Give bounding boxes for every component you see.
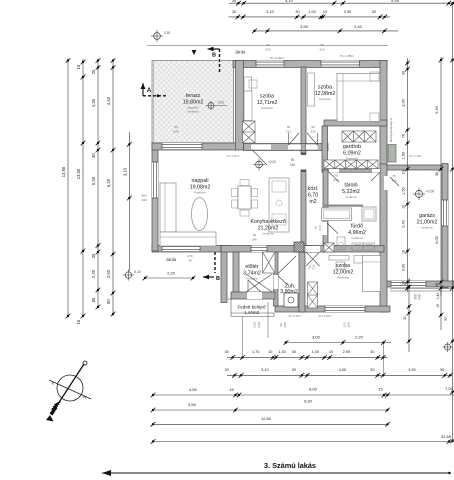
- svg-text:3,50: 3,50: [408, 368, 415, 372]
- svg-text:5,45: 5,45: [391, 0, 398, 3]
- svg-text:Mezőgazdasági út: Mezőgazdasági út: [389, 118, 393, 143]
- svg-text:szoba: szoba: [318, 85, 332, 91]
- svg-text:szoba: szoba: [260, 94, 274, 100]
- svg-text:Parketta: Parketta: [194, 190, 206, 194]
- svg-text:Konyha-étkező: Konyha-étkező: [250, 219, 285, 225]
- svg-text:Fedett belépő: Fedett belépő: [237, 305, 266, 310]
- svg-text:4,50: 4,50: [188, 402, 197, 407]
- svg-text:Pm 0.90m: Pm 0.90m: [289, 314, 302, 318]
- svg-text:210: 210: [311, 130, 316, 134]
- svg-text:0,02: 0,02: [218, 101, 224, 105]
- svg-text:30: 30: [295, 10, 299, 14]
- svg-text:6,70: 6,70: [308, 193, 318, 199]
- svg-text:A: A: [147, 88, 152, 94]
- svg-text:0,38: 0,38: [164, 31, 170, 35]
- svg-text:30: 30: [402, 281, 406, 285]
- svg-text:terasz: terasz: [186, 93, 201, 99]
- svg-text:Parketta: Parketta: [346, 156, 358, 160]
- svg-text:3,10: 3,10: [122, 167, 127, 176]
- svg-text:Járda: Járda: [166, 257, 177, 262]
- svg-text:közl.: közl.: [308, 186, 319, 192]
- svg-text:8,00: 8,00: [309, 387, 318, 392]
- svg-text:3,90m2: 3,90m2: [280, 289, 298, 295]
- svg-text:32,69: 32,69: [441, 434, 452, 439]
- svg-text:30: 30: [91, 253, 96, 258]
- svg-text:210: 210: [319, 48, 324, 52]
- svg-text:6,30: 6,30: [304, 399, 313, 404]
- svg-text:tároló: tároló: [344, 183, 357, 189]
- svg-text:szoba: szoba: [336, 263, 350, 269]
- svg-text:3,00: 3,00: [312, 335, 321, 340]
- svg-text:1,00: 1,00: [308, 10, 315, 14]
- svg-text:240: 240: [141, 198, 146, 202]
- svg-text:210: 210: [333, 178, 338, 182]
- svg-text:100: 100: [283, 322, 287, 327]
- svg-text:30: 30: [372, 10, 376, 14]
- svg-text:30: 30: [91, 153, 96, 158]
- svg-text:2,00: 2,00: [257, 322, 261, 328]
- svg-text:gardrob: gardrob: [343, 144, 361, 150]
- svg-text:210: 210: [391, 179, 396, 183]
- svg-text:0,10: 0,10: [134, 270, 141, 274]
- svg-text:10: 10: [402, 205, 406, 209]
- svg-text:30: 30: [440, 368, 444, 372]
- svg-text:4,10: 4,10: [285, 0, 292, 3]
- svg-text:30: 30: [232, 10, 236, 14]
- svg-text:5,30: 5,30: [91, 176, 96, 185]
- svg-text:1,00: 1,00: [312, 350, 319, 354]
- svg-text:előtér: előtér: [245, 264, 258, 270]
- svg-text:1,50: 1,50: [402, 187, 406, 194]
- svg-text:B: B: [216, 276, 220, 282]
- svg-text:30: 30: [444, 317, 448, 321]
- svg-text:Pm 1.40m: Pm 1.40m: [409, 154, 422, 158]
- svg-text:240: 240: [252, 238, 257, 242]
- svg-text:K: K: [52, 381, 55, 386]
- svg-text:garázs: garázs: [419, 213, 435, 219]
- svg-text:210: 210: [290, 163, 296, 167]
- svg-text:Pm 0.00m: Pm 0.00m: [227, 154, 240, 158]
- svg-text:90: 90: [291, 158, 295, 162]
- svg-text:+0,00: +0,00: [268, 160, 276, 164]
- svg-text:4,00: 4,00: [339, 368, 346, 372]
- svg-text:Pm 0.90m: Pm 0.90m: [319, 314, 332, 318]
- svg-text:5,40: 5,40: [435, 106, 439, 113]
- svg-text:3,10: 3,10: [266, 10, 273, 14]
- svg-text:2,20: 2,20: [355, 335, 364, 340]
- svg-text:210: 210: [312, 264, 316, 269]
- svg-text:20: 20: [91, 69, 96, 74]
- svg-text:m2: m2: [309, 199, 316, 205]
- svg-text:50: 50: [174, 125, 178, 129]
- svg-text:Pm 2.00m: Pm 2.00m: [270, 56, 284, 60]
- svg-text:1,00: 1,00: [253, 322, 257, 328]
- svg-text:2,90: 2,90: [343, 350, 350, 354]
- svg-text:3,10: 3,10: [261, 368, 268, 372]
- svg-text:7,00: 7,00: [445, 386, 454, 391]
- svg-text:kerámia: kerámia: [345, 195, 356, 199]
- svg-text:210: 210: [286, 130, 291, 134]
- svg-text:90: 90: [320, 43, 324, 47]
- svg-text:kerámia: kerámia: [246, 276, 257, 280]
- svg-text:240: 240: [173, 130, 178, 134]
- svg-text:30: 30: [292, 368, 296, 372]
- svg-text:30: 30: [370, 350, 374, 354]
- svg-text:2,20: 2,20: [91, 269, 96, 278]
- svg-text:30: 30: [402, 71, 406, 75]
- svg-text:90: 90: [253, 233, 257, 237]
- svg-text:240: 240: [418, 294, 422, 300]
- svg-text:80: 80: [91, 297, 96, 302]
- svg-text:210: 210: [318, 225, 322, 230]
- svg-text:15: 15: [378, 387, 383, 392]
- svg-text:360: 360: [141, 194, 146, 198]
- svg-text:1,44m2: 1,44m2: [244, 310, 260, 315]
- svg-text:+0,00: +0,00: [426, 190, 435, 194]
- svg-text:30: 30: [435, 172, 439, 176]
- svg-text:15: 15: [436, 304, 440, 308]
- svg-text:15: 15: [76, 64, 81, 69]
- svg-text:2,20: 2,20: [167, 271, 176, 276]
- svg-text:75: 75: [392, 174, 396, 178]
- svg-text:3,30: 3,30: [402, 99, 406, 106]
- svg-text:10: 10: [268, 350, 272, 354]
- svg-text:10: 10: [323, 10, 327, 14]
- svg-text:270: 270: [187, 254, 192, 258]
- svg-text:90: 90: [287, 125, 291, 129]
- svg-text:75: 75: [334, 174, 338, 178]
- svg-text:Parketta: Parketta: [337, 275, 349, 279]
- svg-text:2,40: 2,40: [354, 24, 363, 29]
- svg-text:2,40: 2,40: [402, 220, 406, 227]
- svg-text:30: 30: [403, 316, 407, 320]
- svg-text:90: 90: [266, 43, 270, 47]
- svg-text:19,80m2: 19,80m2: [183, 99, 204, 105]
- svg-text:-N: -N: [82, 395, 86, 400]
- svg-text:3,00: 3,00: [402, 264, 406, 271]
- svg-text:10: 10: [329, 350, 333, 354]
- svg-text:3. Számú lakás: 3. Számú lakás: [264, 461, 316, 470]
- svg-text:1,30: 1,30: [278, 350, 285, 354]
- svg-text:45: 45: [188, 259, 192, 263]
- svg-text:Pm 2.85m: Pm 2.85m: [340, 54, 354, 58]
- svg-text:10: 10: [402, 170, 406, 174]
- svg-text:30: 30: [224, 350, 228, 354]
- svg-text:4,30: 4,30: [91, 98, 96, 107]
- svg-text:6,20: 6,20: [106, 178, 111, 187]
- svg-text:90: 90: [311, 125, 315, 129]
- svg-text:30: 30: [292, 350, 296, 354]
- svg-text:nappali: nappali: [191, 178, 208, 184]
- svg-text:30: 30: [370, 368, 374, 372]
- svg-text:fürdő: fürdő: [351, 224, 363, 230]
- svg-text:2,90: 2,90: [344, 10, 351, 14]
- svg-text:1,60: 1,60: [402, 152, 406, 159]
- svg-text:30: 30: [435, 283, 439, 287]
- svg-text:B: B: [212, 53, 216, 59]
- svg-text:15: 15: [229, 387, 234, 392]
- svg-text:13,90: 13,90: [61, 166, 66, 177]
- svg-text:15: 15: [76, 319, 81, 324]
- svg-text:30: 30: [232, 0, 236, 3]
- svg-text:2,50: 2,50: [106, 269, 111, 278]
- svg-text:Járda: Járda: [235, 50, 246, 55]
- svg-text:30: 30: [224, 368, 228, 372]
- svg-text:12,80: 12,80: [261, 416, 272, 421]
- svg-text:Parketta: Parketta: [319, 97, 331, 101]
- svg-text:4,40: 4,40: [106, 96, 111, 105]
- svg-text:13,60: 13,60: [76, 168, 81, 179]
- svg-text:4,50: 4,50: [189, 387, 198, 392]
- svg-text:1,40: 1,40: [436, 293, 440, 300]
- svg-text:150: 150: [347, 322, 351, 327]
- svg-text:kerámia: kerámia: [421, 225, 432, 229]
- svg-text:210: 210: [265, 48, 270, 52]
- svg-text:10: 10: [402, 250, 406, 254]
- svg-text:80: 80: [106, 299, 111, 304]
- svg-text:kerámia: kerámia: [351, 236, 362, 240]
- svg-text:kerámia: kerámia: [262, 231, 273, 235]
- svg-text:3,90: 3,90: [300, 24, 309, 29]
- svg-text:Parketta: Parketta: [261, 106, 273, 110]
- svg-text:6,00: 6,00: [435, 236, 439, 243]
- svg-text:70: 70: [402, 134, 406, 138]
- svg-text:1,70: 1,70: [252, 350, 259, 354]
- svg-text:kerámia: kerámia: [187, 110, 198, 114]
